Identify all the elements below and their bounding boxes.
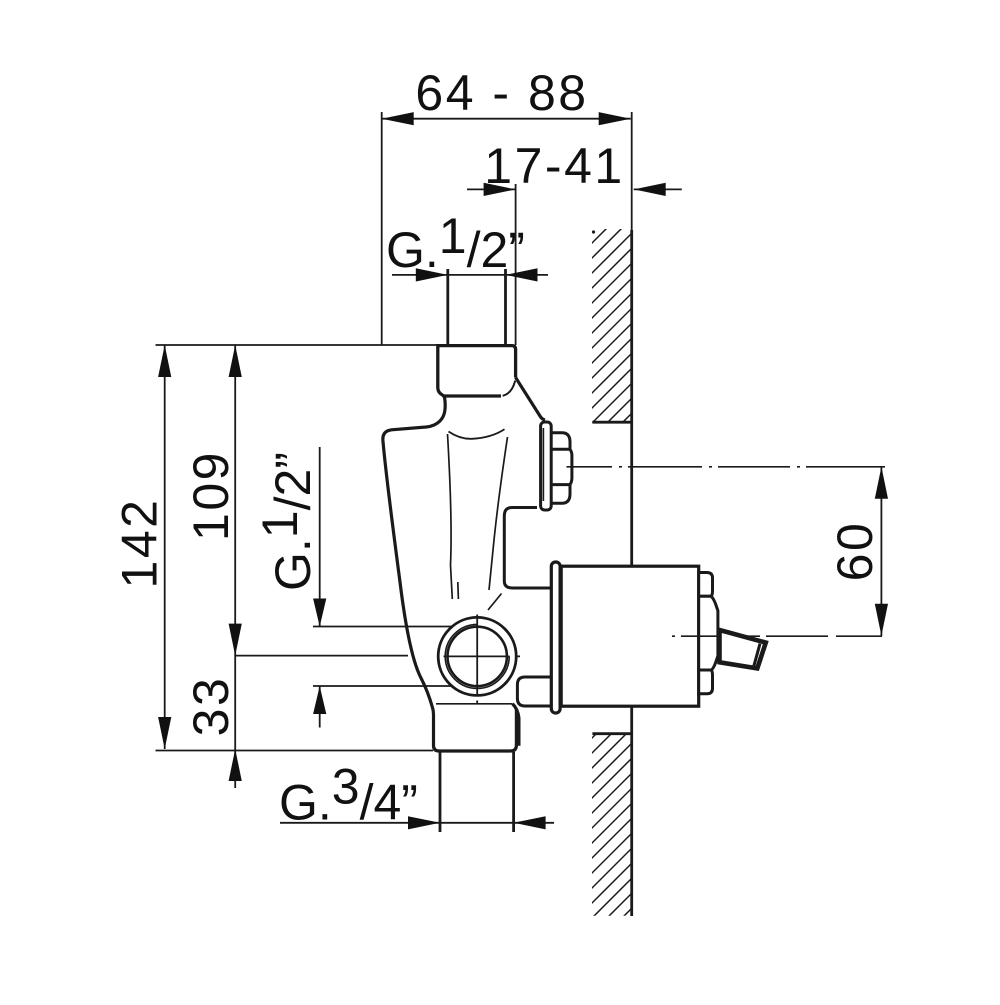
handle end cap line — [754, 644, 761, 668]
body left profile — [383, 397, 517, 751]
hatch corner dot — [592, 230, 595, 233]
cone plate (top port face) — [541, 422, 552, 510]
dim 17-41 left extension line — [515, 184, 517, 345]
dim G.1/2 top dimension line with outside arrows — [392, 268, 548, 281]
extension line top (y=345) — [156, 344, 438, 346]
dim 64-88 right extension line (above wall) — [631, 112, 633, 230]
wall hole lower edge — [592, 732, 631, 735]
svg-text:33: 33 — [183, 676, 239, 737]
side port thread arc — [445, 624, 509, 688]
internal funnel left line — [448, 434, 453, 599]
dim 17-41 dimension line with outside arrows — [467, 183, 682, 196]
step above bottom-right (notch) — [517, 677, 551, 706]
dim 64-88 dimension line with arrows — [382, 112, 631, 125]
wall surface edge line — [630, 230, 633, 916]
dim 109/33 shared vertical line with arrows — [229, 345, 242, 788]
side port tangent extension line upper — [313, 626, 475, 628]
wall hole upper edge — [592, 421, 631, 424]
cartridge flange — [551, 562, 560, 713]
valve body: hex union block — [436, 346, 515, 398]
centerline top port axis — [567, 466, 886, 468]
handle lever — [720, 630, 766, 668]
dim G.3/4 bottom dimension line with outside arrows — [280, 816, 554, 829]
side port crosshair horizontal — [444, 655, 521, 657]
mid boss outline (right of circle) — [504, 508, 551, 589]
bottom block shoulder line — [436, 703, 513, 705]
top port hex nut at wall — [552, 431, 572, 503]
centerline cartridge axis — [672, 635, 882, 637]
slant from hex to cone plate — [516, 378, 545, 421]
extension line bottom (y=750.5) — [156, 750, 434, 752]
dim 142 vertical line with arrows — [158, 345, 171, 749]
internal funnel right line — [489, 437, 508, 590]
svg-text:109: 109 — [183, 450, 239, 541]
internal short line near circle — [457, 582, 460, 599]
svg-text:17-41: 17-41 — [484, 138, 624, 194]
valve body: top pipe G1/2 — [448, 269, 506, 345]
wall hatch bottom band — [560, 690, 640, 980]
fillet arc under slant — [503, 381, 516, 396]
curve under hex (socket) — [449, 429, 505, 439]
svg-text:64 - 88: 64 - 88 — [415, 65, 588, 121]
svg-text:142: 142 — [112, 498, 168, 589]
cartridge nut silhouette right of box — [699, 573, 718, 694]
dim 64-88 left extension line — [381, 112, 383, 345]
wall hatch top band — [560, 180, 640, 485]
svg-text:60: 60 — [827, 521, 883, 582]
cone plate inner line — [542, 428, 544, 501]
extension line circle center (y=655.6) — [235, 655, 408, 657]
side port outer circle — [438, 617, 516, 695]
side port crosshair vertical — [476, 615, 478, 704]
bottom right step segment — [513, 704, 519, 746]
dim G.1/2 side port small dimension — [313, 447, 326, 728]
side port tangent extension line lower — [313, 685, 455, 687]
chamfer line top-right of circle — [488, 594, 502, 611]
side port inner circle — [448, 627, 507, 686]
dim 60 vertical line with arrows — [875, 467, 888, 636]
cartridge box — [561, 566, 699, 706]
bottom pipe G3/4 — [440, 752, 514, 832]
